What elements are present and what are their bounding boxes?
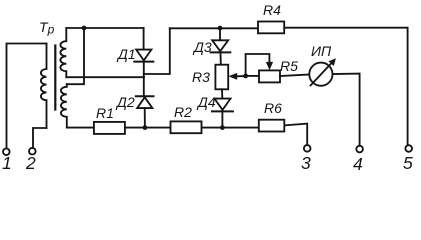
node A junction dot on top-left bus (82, 26, 87, 31)
wire from D1/D2 midpoint to right top bus (144, 28, 170, 74)
svg-text:R2: R2 (174, 104, 192, 120)
svg-text:Тр: Тр (39, 19, 55, 37)
R5 wiper link wire (up and over) (246, 54, 270, 76)
meter IP needle arrow (311, 58, 336, 85)
junction dot D4 to bottom bus (220, 125, 225, 130)
potentiometer R3 (vertical) (215, 65, 228, 90)
svg-text:R5: R5 (280, 58, 298, 74)
wire R3 wiper node to R5 (246, 75, 259, 77)
svg-text:3: 3 (301, 153, 311, 173)
diode D1 (134, 50, 153, 96)
terminal 3 circle (304, 145, 311, 152)
wire secondary 1 bottom to diode junction (node between D1 and D2) (66, 76, 144, 78)
svg-text:ИП: ИП (311, 43, 332, 59)
terminal 4 circle (356, 146, 363, 153)
wire meter to terminal 4 (333, 74, 360, 146)
wire from top-left bus node down to secondary 2 top (67, 28, 84, 84)
potentiometer R5 (259, 70, 280, 82)
svg-text:R3: R3 (192, 69, 210, 85)
transformer secondary winding 1 (60, 28, 66, 77)
junction dot D3 top (218, 26, 223, 31)
wire top-left bus: secondary 1 top to diode D1 anode (66, 27, 143, 29)
svg-text:5: 5 (403, 153, 413, 173)
resistor R1 (94, 122, 125, 134)
svg-text:1: 1 (2, 153, 12, 173)
terminal 5 circle (405, 145, 412, 152)
transformer primary winding (41, 44, 47, 129)
svg-text:Д3: Д3 (192, 39, 212, 55)
resistor R6 (259, 120, 285, 132)
wire R5 to meter (280, 75, 309, 77)
diode D4 (212, 99, 233, 128)
svg-text:Д2: Д2 (115, 94, 135, 110)
svg-text:4: 4 (353, 154, 363, 174)
wire terminal 1 riser and top horizontal to primary (7, 44, 47, 149)
junction dot D2 to bottom bus (143, 125, 148, 130)
resistor R4 (258, 22, 284, 34)
wire primary bottom to terminal 2 (33, 128, 47, 148)
terminal 1 circle (3, 149, 10, 156)
svg-text:2: 2 (25, 153, 36, 173)
svg-text:Д1: Д1 (116, 46, 136, 62)
R5 wiper arrow (points down onto box) (266, 62, 273, 70)
diode D2 (136, 96, 154, 127)
transformer core (54, 46, 56, 110)
svg-text:R4: R4 (263, 2, 281, 18)
junction dot R5 left node (243, 74, 248, 79)
terminal 2 circle (29, 148, 36, 155)
meter IP circle (309, 63, 332, 86)
top-right bus wire (to R4, D3, terminal 5) (170, 27, 258, 29)
svg-text:R1: R1 (96, 105, 114, 121)
svg-text:Д4: Д4 (196, 94, 216, 110)
svg-text:R6: R6 (264, 100, 282, 116)
diode D3 (211, 28, 231, 65)
R3 wiper arrow (points left into box) (228, 73, 245, 80)
wire R3 bottom to D4 (221, 89, 223, 98)
bottom bus wire (secondary 2 bottom to terminal 3) (67, 127, 262, 129)
resistor R2 (171, 121, 202, 133)
wire D1 branch vertical (143, 28, 145, 49)
transformer secondary winding 2 (61, 84, 67, 127)
